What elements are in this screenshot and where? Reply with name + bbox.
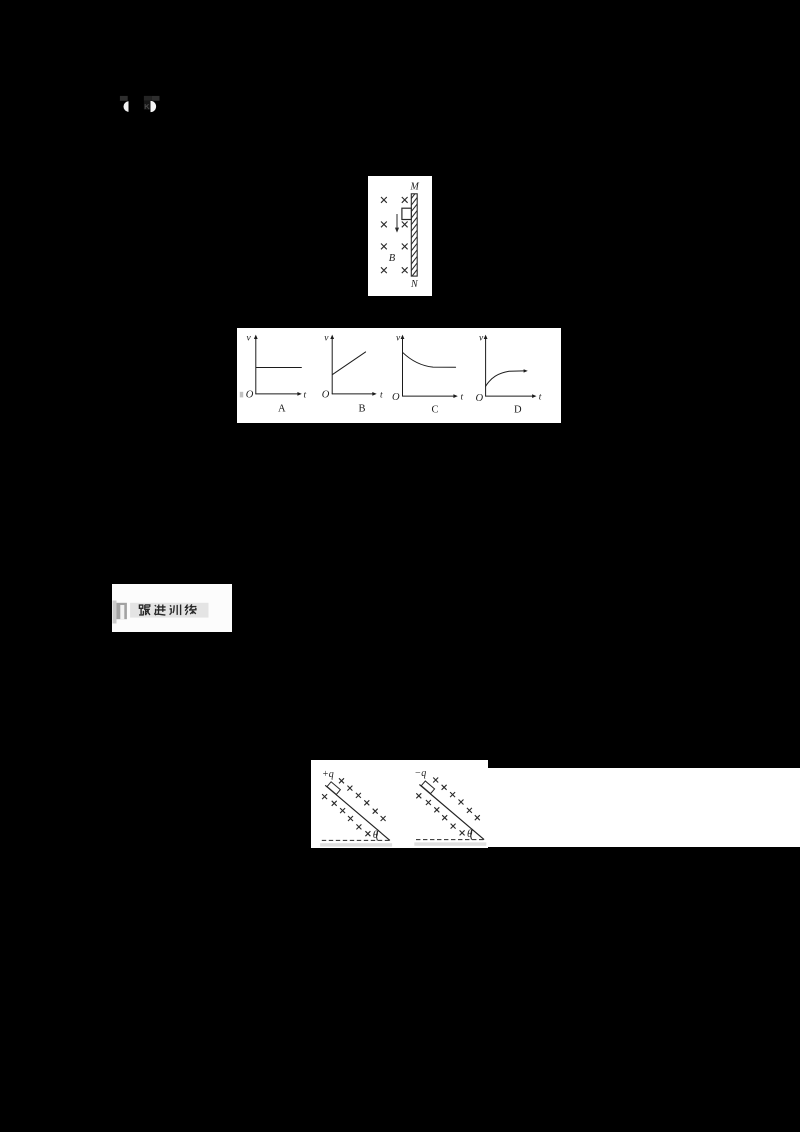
svg-text:O: O <box>246 389 254 400</box>
svg-text:−q: −q <box>415 768 427 779</box>
svg-text:O: O <box>392 392 400 403</box>
svg-text:t: t <box>461 393 464 403</box>
svg-text:+q: +q <box>322 769 334 780</box>
svg-text:C: C <box>432 405 439 416</box>
svg-text:v: v <box>247 334 252 344</box>
svg-text:O: O <box>322 389 330 400</box>
svg-text:N: N <box>410 279 419 290</box>
svg-text:D: D <box>514 405 522 416</box>
svg-text:B: B <box>389 253 396 264</box>
svg-text:v: v <box>324 334 329 344</box>
svg-text:B: B <box>359 404 366 415</box>
svg-text:t: t <box>539 393 542 403</box>
svg-text:t: t <box>304 390 307 400</box>
svg-text:O: O <box>476 393 484 404</box>
svg-text:A: A <box>278 404 286 415</box>
svg-text:v: v <box>479 334 484 344</box>
svg-text:v: v <box>396 334 401 344</box>
svg-text:t: t <box>380 390 383 400</box>
svg-text:M: M <box>410 182 420 193</box>
